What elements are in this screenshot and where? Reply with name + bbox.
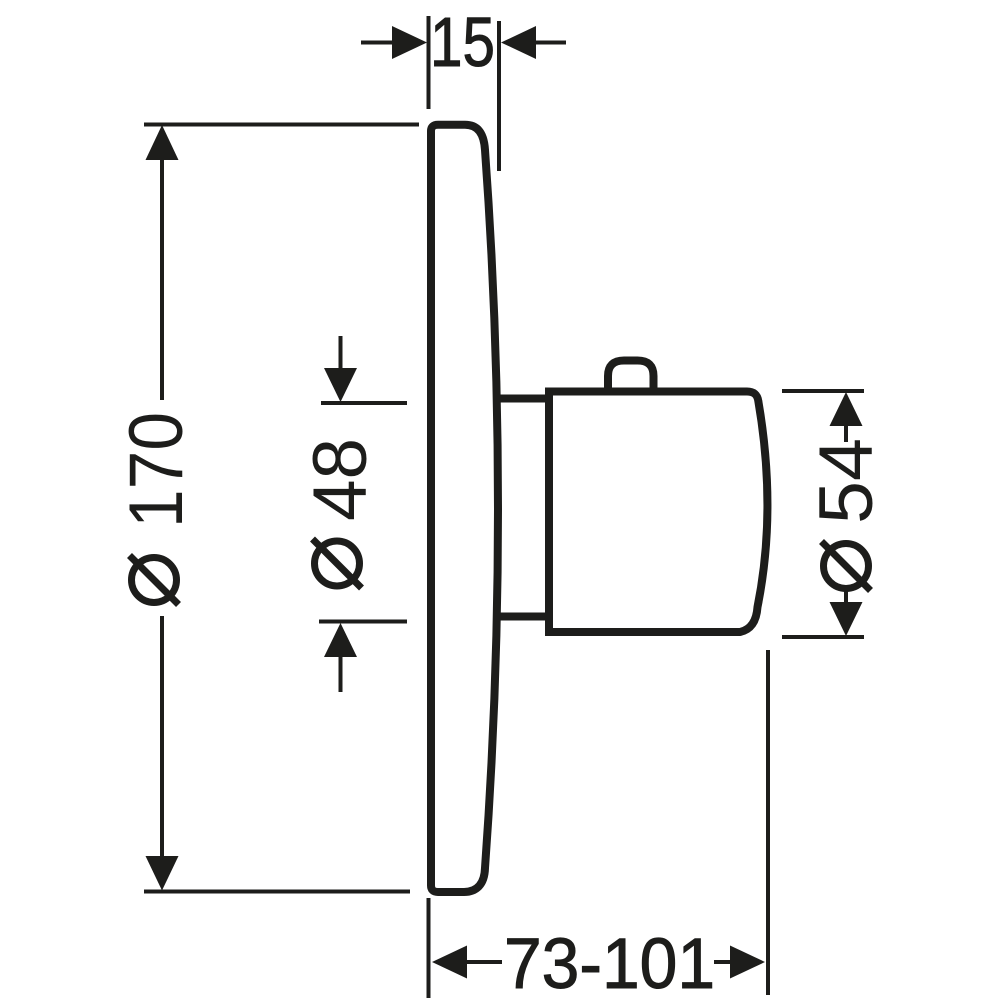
svg-text:170: 170 bbox=[114, 412, 199, 528]
dim 15: left extension line bbox=[427, 16, 431, 109]
dim D48: diameter symbol circle bbox=[315, 541, 360, 586]
dim 73-101: left arrowhead bbox=[432, 946, 467, 979]
dim D170: top arrowhead bbox=[146, 125, 179, 160]
dim D54: top arrowhead bbox=[830, 392, 863, 426]
handle outline bbox=[549, 392, 767, 633]
dim D170: bottom arrowhead bbox=[146, 856, 179, 891]
handle button bbox=[608, 361, 654, 393]
dim D54: top leader line bbox=[844, 424, 848, 442]
sleeve top line bbox=[499, 395, 551, 403]
dim D54: diameter symbol circle bbox=[824, 544, 869, 589]
dim D48: bottom arrowhead bbox=[324, 623, 357, 657]
dim D54: diameter symbol slash bbox=[822, 542, 871, 591]
dim 73-101: right arrowhead bbox=[730, 946, 765, 979]
dim D48: top arrowhead bbox=[324, 368, 357, 402]
sleeve bottom line bbox=[494, 613, 551, 621]
dim D170: dimension line lower segment bbox=[160, 616, 164, 858]
dim 73-101: left extension line bbox=[427, 898, 431, 998]
dim 15: left arrowhead bbox=[392, 26, 427, 59]
svg-text:15: 15 bbox=[430, 3, 495, 81]
dim 15: right leader line bbox=[534, 41, 566, 45]
dim D54: top extension line bbox=[782, 389, 864, 393]
dim D170: diameter symbol slash bbox=[130, 556, 179, 605]
dim D48: top leader line bbox=[339, 336, 343, 370]
dim D170: top extension line bbox=[144, 123, 419, 127]
dim D48: diameter symbol slash bbox=[313, 539, 362, 588]
dim 15: left leader line bbox=[361, 41, 394, 45]
dim D170: dimension line upper segment bbox=[160, 158, 164, 400]
svg-text:73-101: 73-101 bbox=[504, 925, 715, 1000]
dim D48: top extension line bbox=[321, 401, 407, 405]
dim D54: bottom arrowhead bbox=[830, 602, 863, 636]
dim D170: diameter symbol circle bbox=[132, 558, 177, 603]
dim 73-101: right extension line bbox=[766, 650, 770, 995]
dim 15: right extension line bbox=[497, 21, 501, 171]
dim D54: bottom leader line bbox=[844, 588, 848, 604]
dim D48: bottom extension line bbox=[319, 620, 407, 624]
dim D54: bottom extension line bbox=[782, 635, 864, 639]
dim 73-101: left leader line bbox=[466, 960, 502, 964]
dim D48: bottom leader line bbox=[339, 655, 343, 692]
escutcheon plate outline (side view) bbox=[431, 125, 498, 892]
svg-text:48: 48 bbox=[298, 438, 383, 521]
dim D170: bottom extension line bbox=[144, 890, 410, 894]
svg-text:54: 54 bbox=[804, 438, 889, 524]
dim 73-101: right leader line bbox=[714, 960, 732, 964]
dim 15: right arrowhead bbox=[501, 26, 536, 59]
